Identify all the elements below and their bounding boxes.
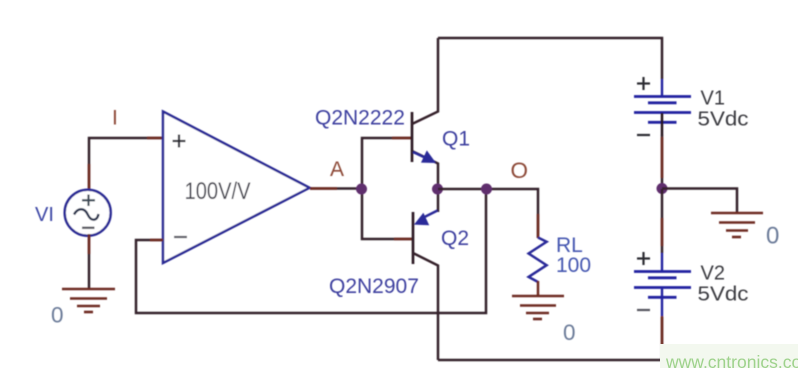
wire: V2 minus to bottom rail [661, 316, 664, 345]
svg-text:Q2N2907: Q2N2907 [329, 275, 419, 298]
svg-text:0: 0 [563, 320, 576, 345]
svg-text:O: O [511, 158, 529, 183]
wire: base bus to Q1 and Q2 [362, 138, 413, 239]
wire: mid node to V2 plus [661, 189, 664, 253]
wire: bottom rail Q2 collector to V2 minus [438, 317, 662, 360]
wire: VI bottom to ground [88, 234, 91, 289]
svg-text:A: A [330, 158, 344, 181]
wire: RL bottom to ground [537, 281, 540, 296]
svg-text:VI: VI [35, 204, 54, 226]
wire: op-amp output to node A [310, 187, 362, 190]
wire: V1 minus to mid node [661, 135, 664, 189]
svg-text:I: I [112, 107, 118, 130]
svg-text:Q1: Q1 [442, 128, 470, 151]
op-amp U1 [163, 112, 310, 264]
resistor RL [529, 238, 547, 283]
svg-text:0: 0 [51, 303, 64, 328]
watermark background [660, 344, 798, 368]
transistor Q2 (Q2N2907 PNP) [413, 189, 438, 360]
ground: below RL [512, 296, 564, 319]
svg-text:5Vdc: 5Vdc [698, 284, 749, 306]
source VI [65, 190, 111, 236]
wire: VI top to op-amp plus input [89, 138, 163, 192]
svg-text:Q2: Q2 [441, 227, 469, 250]
source V1 [634, 77, 691, 136]
wire: top rail Q1 collector to V1 plus [438, 38, 662, 79]
transistor Q1 (Q2N2222 NPN) [412, 38, 438, 189]
wire: emitters to node O to RL [438, 189, 538, 238]
junction: mid supply node [657, 183, 668, 194]
svg-text:5Vdc: 5Vdc [698, 109, 749, 131]
junction: node A [356, 184, 367, 195]
svg-text:V2: V2 [701, 263, 725, 285]
svg-text:www.cntronics.co: www.cntronics.co [665, 352, 798, 368]
svg-text:Q2N2222: Q2N2222 [315, 107, 405, 130]
wire: mid node to right ground [662, 189, 737, 214]
junction: node O [481, 184, 492, 195]
svg-text:V1: V1 [701, 88, 725, 110]
ground: below VI [62, 289, 115, 312]
junction: emitters node [432, 184, 443, 195]
svg-text:0: 0 [766, 223, 779, 250]
svg-text:100V/V: 100V/V [185, 178, 251, 205]
ground: right (supply mid) [711, 213, 763, 237]
svg-text:100: 100 [556, 254, 591, 277]
source V2 [634, 252, 691, 316]
wire: feedback from node O to op-amp minus input [136, 189, 486, 313]
